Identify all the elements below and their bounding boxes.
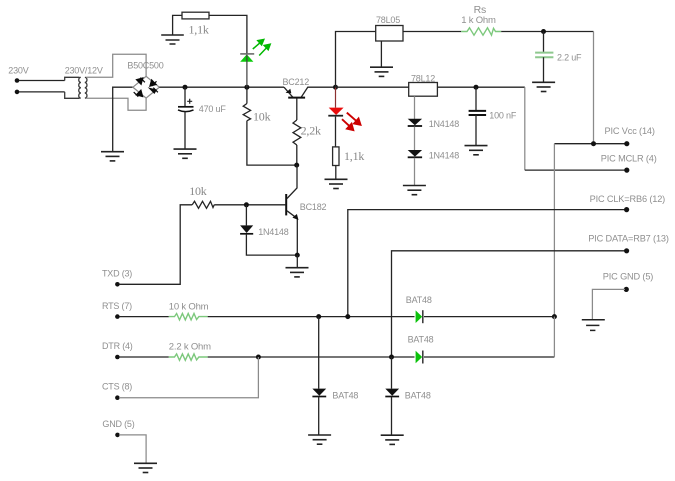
svg-text:470 uF: 470 uF xyxy=(199,104,227,114)
svg-text:PIC Vcc (14): PIC Vcc (14) xyxy=(605,126,655,136)
svg-text:10 k Ohm: 10 k Ohm xyxy=(169,301,209,312)
svg-text:BAT48: BAT48 xyxy=(405,391,431,401)
svg-text:100 nF: 100 nF xyxy=(489,111,517,121)
svg-text:GND (5): GND (5) xyxy=(102,419,134,429)
svg-text:78L12: 78L12 xyxy=(411,73,435,83)
svg-text:BAT48: BAT48 xyxy=(408,335,434,345)
svg-text:PIC GND (5): PIC GND (5) xyxy=(603,271,654,281)
svg-text:2,2k: 2,2k xyxy=(301,123,321,137)
svg-text:BAT48: BAT48 xyxy=(332,391,358,401)
svg-text:230V/12V: 230V/12V xyxy=(65,66,103,76)
svg-text:RTS (7): RTS (7) xyxy=(102,301,132,311)
svg-text:2.2 uF: 2.2 uF xyxy=(557,53,582,63)
svg-text:CTS (8): CTS (8) xyxy=(102,382,132,392)
svg-text:78L05: 78L05 xyxy=(376,15,400,25)
svg-text:DTR (4): DTR (4) xyxy=(102,341,133,351)
svg-text:1 k Ohm: 1 k Ohm xyxy=(461,15,496,26)
svg-text:BC212: BC212 xyxy=(283,77,310,87)
svg-text:1N4148: 1N4148 xyxy=(258,227,289,237)
svg-text:PIC MCLR (4): PIC MCLR (4) xyxy=(601,153,657,163)
svg-text:1N4148: 1N4148 xyxy=(429,150,460,160)
svg-text:10k: 10k xyxy=(189,184,207,198)
svg-text:B50C500: B50C500 xyxy=(127,61,163,71)
svg-text:Rs: Rs xyxy=(474,4,486,16)
svg-text:10k: 10k xyxy=(253,110,271,124)
svg-text:1N4148: 1N4148 xyxy=(429,119,460,129)
svg-text:PIC CLK=RB6 (12): PIC CLK=RB6 (12) xyxy=(590,194,666,204)
svg-text:BAT48: BAT48 xyxy=(406,295,432,305)
svg-text:PIC DATA=RB7 (13): PIC DATA=RB7 (13) xyxy=(588,233,669,243)
svg-text:TXD (3): TXD (3) xyxy=(102,268,132,278)
svg-text:1,1k: 1,1k xyxy=(189,23,209,37)
svg-text:BC182: BC182 xyxy=(300,202,327,212)
svg-text:230V: 230V xyxy=(8,66,28,76)
svg-text:2.2 k Ohm: 2.2 k Ohm xyxy=(169,342,211,353)
svg-text:1,1k: 1,1k xyxy=(344,149,364,163)
